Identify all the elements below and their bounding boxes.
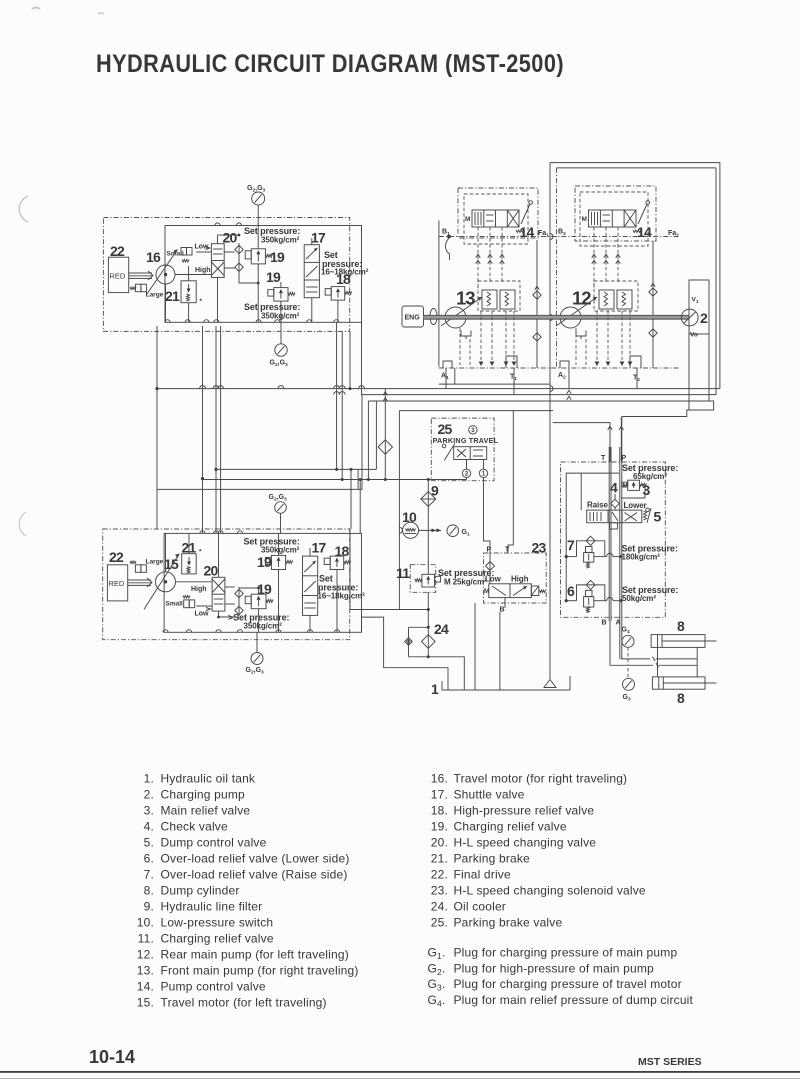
- footer page number: [89, 1047, 135, 1067]
- svg-text:Over-load relief valve (Lower: Over-load relief valve (Lower side): [161, 851, 350, 865]
- label P (dump block): [622, 455, 627, 462]
- label Low (upper block): [195, 244, 210, 251]
- svg-text:Main relief valve: Main relief valve: [161, 803, 251, 817]
- svg-text:65kg/cm²: 65kg/cm²: [633, 472, 667, 481]
- engine: [402, 306, 424, 327]
- P rail double line: [620, 417, 622, 659]
- H-L speed changing solenoid valve 23: [484, 584, 546, 598]
- svg-text:Parking brake: Parking brake: [454, 851, 531, 865]
- check valves on 20 output (lower): [235, 587, 243, 616]
- label 3: [643, 482, 651, 498]
- page title: [96, 50, 564, 78]
- lever of valve 14 (right): [633, 201, 650, 233]
- svg-text:M: M: [623, 483, 628, 490]
- travel motor 13 circuit case: [458, 188, 538, 238]
- wire: horizontal line 3: [349, 331, 714, 416]
- svg-text:Small: Small: [166, 601, 184, 608]
- pump 16 large-displacement pilot: [130, 284, 164, 298]
- svg-text:17: 17: [311, 230, 326, 246]
- svg-text:High: High: [191, 586, 207, 593]
- lever of valve 14 (left): [516, 201, 533, 233]
- svg-text:17.: 17.: [431, 787, 448, 801]
- wires from final drive case: [689, 334, 709, 410]
- svg-text:Oil cooler: Oil cooler: [454, 899, 506, 913]
- svg-text:Front main pump (for right tra: Front main pump (for right traveling): [161, 963, 359, 977]
- svg-text:15.: 15.: [137, 995, 154, 1009]
- svg-text:5.: 5.: [144, 835, 154, 849]
- svg-text:Shuttle valve: Shuttle valve: [454, 787, 525, 801]
- svg-text:G3.: G3.: [428, 977, 446, 993]
- wire: drain rail to tank: [550, 163, 553, 679]
- wire: lower block right to tank: [362, 617, 449, 690]
- svg-text:MST SERIES: MST SERIES: [638, 1056, 702, 1068]
- svg-text:350kg/cm²: 350kg/cm²: [261, 312, 300, 321]
- label 21 (lower): [182, 540, 197, 556]
- wire: left rail 1 between blocks: [155, 326, 158, 529]
- svg-text:Low: Low: [485, 575, 502, 584]
- wire: horizontal line 4: [399, 411, 553, 610]
- svg-text:Low: Low: [195, 611, 210, 618]
- label 19 (lower top): [257, 554, 272, 570]
- svg-text:Set pressure:: Set pressure:: [244, 302, 300, 312]
- label 19 (upper second): [266, 269, 281, 285]
- wire: left rail 3 between blocks: [214, 326, 217, 533]
- plug G2,G3 gauge (above lower block): [269, 494, 288, 533]
- wire: left rail 4 between blocks: [220, 326, 222, 533]
- svg-text:8: 8: [677, 690, 685, 706]
- svg-text:19: 19: [270, 249, 285, 265]
- svg-text:14: 14: [520, 224, 535, 240]
- pump control valve springs 12: [594, 281, 638, 311]
- left loop of dump circuit: [566, 473, 619, 601]
- lever of valve 5: [644, 508, 652, 523]
- label B (23): [500, 607, 505, 614]
- set pressure note (upper block top): [244, 226, 300, 245]
- footer rule: [0, 1071, 800, 1079]
- svg-text:Travel motor (for right travel: Travel motor (for right traveling): [454, 771, 628, 785]
- label B2: [558, 229, 566, 237]
- wire crossing bumps lower block edges: [163, 531, 340, 633]
- svg-text:21.: 21.: [431, 851, 448, 865]
- svg-text:M 25kg/cm²: M 25kg/cm²: [444, 578, 487, 587]
- parts list right column: [431, 771, 646, 929]
- motor 12 work lines: [576, 311, 632, 366]
- svg-text:PARKING TRAVEL: PARKING TRAVEL: [433, 436, 499, 445]
- svg-text:Low-pressure switch: Low-pressure switch: [161, 915, 274, 929]
- svg-text:7: 7: [567, 537, 575, 553]
- charging relief valve 19 (lower top): [265, 555, 292, 569]
- charging relief valve 11: [415, 574, 441, 587]
- svg-text:H-L speed changing valve: H-L speed changing valve: [454, 835, 597, 849]
- shuttle valve 17 (upper): [304, 245, 319, 298]
- svg-text:A: A: [616, 620, 621, 627]
- drain brackets above A2 T2: [560, 356, 641, 368]
- travel motor 12 pilot box: [580, 192, 648, 246]
- svg-text:19.: 19.: [431, 819, 448, 833]
- wire: lower block to cooler: [350, 529, 430, 611]
- svg-text:16.: 16.: [431, 771, 448, 785]
- T1 T2 drops: [446, 368, 637, 395]
- svg-text:3.: 3.: [144, 803, 154, 817]
- label A1: [441, 373, 449, 381]
- label 22 (lower): [109, 549, 124, 565]
- label 23: [532, 540, 547, 556]
- wire from T drop to valve 23: [508, 411, 513, 553]
- label 14 (right): [637, 224, 652, 240]
- svg-text:22.: 22.: [431, 867, 448, 881]
- B1-Fa1-B2-Fa2 pilot dash-dot line: [439, 236, 679, 238]
- label 1: [431, 681, 439, 697]
- svg-text:Raise: Raise: [587, 501, 608, 510]
- final drive RED box: [108, 257, 128, 292]
- svg-text:M: M: [465, 216, 470, 223]
- svg-text:G4.: G4.: [428, 993, 446, 1009]
- label 13: [456, 288, 475, 309]
- svg-text:RED: RED: [109, 579, 125, 588]
- pump 16 small-displacement pilot: [167, 248, 193, 263]
- label 8 (top): [677, 618, 685, 634]
- low-pressure switch 10: [403, 522, 419, 538]
- plug G2,G3 gauge (below upper block): [270, 322, 289, 368]
- label 16: [146, 249, 161, 265]
- check valve in 23: [486, 553, 495, 584]
- svg-text:18: 18: [335, 543, 350, 559]
- svg-text:9.: 9.: [144, 899, 154, 913]
- set pressure note (17 lower): [318, 574, 366, 601]
- svg-text:Dump cylinder: Dump cylinder: [161, 883, 240, 897]
- svg-text:Pump control valve: Pump control valve: [161, 979, 266, 993]
- set pressure note (17 upper): [321, 250, 369, 277]
- wire: horizontal line 2: [334, 168, 716, 395]
- svg-text:8: 8: [677, 618, 685, 634]
- scan artifacts: [19, 8, 104, 537]
- wire valve 6 line: [565, 598, 623, 603]
- wire: bottom-left bundle line a: [216, 322, 376, 489]
- svg-text:20.: 20.: [431, 835, 448, 849]
- svg-text:4: 4: [610, 480, 618, 496]
- svg-text:Large: Large: [146, 292, 164, 299]
- svg-text:13.: 13.: [137, 963, 154, 977]
- wire: horizontal into parking/filter: [367, 478, 370, 481]
- cylinder link wires: [658, 647, 698, 677]
- svg-text:Vo: Vo: [690, 332, 698, 339]
- svg-text:13: 13: [456, 288, 475, 309]
- svg-text:P: P: [487, 547, 492, 554]
- wire from port 1 to valve 23: [484, 478, 491, 554]
- travel motor 12 circuit case: [575, 186, 656, 241]
- wires inside lower block: [166, 533, 338, 632]
- circled 2: [462, 469, 470, 477]
- label 19 (lower mid): [257, 581, 272, 597]
- svg-text:11: 11: [396, 565, 410, 581]
- pump control valve springs 13: [478, 281, 520, 311]
- svg-text:Plug for high-pressure of main: Plug for high-pressure of main pump: [454, 961, 655, 975]
- plug G1 gauge: [447, 525, 470, 538]
- label 15: [164, 556, 179, 572]
- final drive 2 case: [689, 280, 709, 334]
- H-L speed changing valve 20 (lower): [206, 577, 225, 611]
- svg-text:24: 24: [434, 621, 449, 637]
- svg-text:Over-load relief valve (Raise: Over-load relief valve (Raise side): [161, 867, 348, 881]
- charging relief valve 19 (upper second): [268, 288, 295, 302]
- drive shaft: [424, 315, 690, 319]
- svg-text:Plug for main relief pressure: Plug for main relief pressure of dump ci…: [454, 993, 694, 1007]
- svg-text:Plug for charging pressure of: Plug for charging pressure of main pump: [454, 946, 678, 960]
- valve 5 port block: [610, 523, 618, 529]
- label 17 (lower): [312, 540, 327, 556]
- svg-text:19: 19: [266, 269, 281, 285]
- svg-text:Hydraulic oil tank: Hydraulic oil tank: [161, 771, 256, 785]
- set pressure note (lower block bottom): [228, 613, 289, 631]
- wire: top line outer: [550, 163, 720, 389]
- svg-text:18: 18: [336, 271, 351, 287]
- svg-text:High: High: [511, 575, 529, 584]
- H-L speed changing valve 20 (upper): [206, 244, 225, 278]
- bottom dash-dot of motor box: [439, 367, 679, 369]
- svg-text:22: 22: [109, 549, 124, 565]
- label B1: [442, 229, 451, 239]
- label T1: [510, 374, 517, 382]
- wire: cooler to tank: [428, 657, 464, 690]
- wires inside upper block: [166, 226, 338, 323]
- wire: left edge of motor box: [438, 220, 440, 366]
- wire: bottom-left bundle line b: [203, 331, 467, 481]
- hydraulic oil tank 1: [442, 676, 570, 690]
- parking brake 21 (lower): [182, 549, 202, 574]
- plug G2,G3 gauge (top of upper block): [247, 185, 266, 226]
- svg-text:High-pressure relief valve: High-pressure relief valve: [454, 803, 595, 817]
- svg-text:Final drive: Final drive: [454, 867, 511, 881]
- label Vo: [690, 332, 698, 339]
- check valves on 20 output: [235, 243, 243, 277]
- label 18 (lower): [335, 543, 350, 559]
- label Low (lower block): [195, 611, 210, 618]
- wire: T/P drop to dump control: [553, 417, 624, 463]
- svg-text:19: 19: [257, 554, 272, 570]
- plug G4 gauge: [622, 627, 635, 666]
- svg-text:16~18kg/cm²: 16~18kg/cm²: [318, 592, 366, 601]
- relief loop to valve 3: [621, 485, 645, 498]
- shuttle valve 17 (lower): [303, 556, 318, 615]
- svg-text:8.: 8.: [144, 883, 154, 897]
- svg-text:Hydraulic line filter: Hydraulic line filter: [161, 899, 263, 913]
- label B (dump): [602, 620, 607, 627]
- drain brackets above A1 T1: [443, 356, 517, 368]
- charging relief valve 11 case: [410, 565, 436, 593]
- dump control valve 5: [587, 510, 642, 523]
- pump 16: [147, 250, 178, 295]
- final drive 22 outer case (lower): [103, 529, 350, 640]
- svg-text:Plug for charging pressure of: Plug for charging pressure of travel mot…: [454, 977, 682, 991]
- svg-text:6: 6: [567, 583, 575, 599]
- svg-text:12.: 12.: [137, 947, 154, 961]
- label 17: [311, 230, 326, 246]
- pump 15 large-displacement pilot: [130, 559, 164, 573]
- svg-text:10.: 10.: [137, 915, 154, 929]
- label 18: [336, 271, 351, 287]
- label 21: [165, 288, 180, 304]
- parking brake 21 (upper): [181, 281, 203, 305]
- svg-text:RED: RED: [110, 272, 126, 281]
- svg-text:7.: 7.: [144, 867, 154, 881]
- valve 23 drain: [504, 598, 506, 608]
- under-box horizontal: [439, 368, 550, 384]
- svg-text:Charging pump: Charging pump: [161, 787, 246, 801]
- svg-text:3: 3: [643, 482, 651, 498]
- pump control valve 14 (left): [465, 210, 519, 227]
- svg-text:180kg/cm²: 180kg/cm²: [622, 553, 661, 562]
- svg-text:11.: 11.: [138, 931, 154, 945]
- wire: 23 drains to tank: [475, 603, 500, 690]
- wire: staircase vertical to lower block a: [350, 468, 353, 529]
- pump 15 small-displacement pilot: [166, 596, 195, 608]
- label 5: [654, 509, 662, 525]
- svg-text:ENG: ENG: [405, 315, 421, 322]
- over-load relief valve 6: [584, 590, 594, 612]
- svg-text:Dump control valve: Dump control valve: [161, 835, 267, 849]
- main relief valve 3: [622, 480, 647, 490]
- label T2: [633, 375, 640, 383]
- wire: line to parking circuit: [368, 389, 392, 480]
- plug G2,G3 gauge (below lower block): [246, 632, 265, 675]
- B1 corner wire: [446, 238, 450, 260]
- parts list left column: [137, 771, 359, 1009]
- over-load relief valve 7 loop: [577, 536, 605, 556]
- svg-text:350kg/cm²: 350kg/cm²: [261, 236, 300, 245]
- svg-text:HYDRAULIC CIRCUIT DIAGRAM (MST: HYDRAULIC CIRCUIT DIAGRAM (MST-2500): [96, 50, 564, 78]
- T rail double line: [609, 447, 611, 621]
- label 9: [431, 483, 439, 499]
- label PARKING TRAVEL: [433, 436, 499, 445]
- wire: staircase vertical to lower block b: [359, 478, 362, 533]
- label 8 (bottom): [677, 690, 685, 706]
- svg-text:50kg/cm²: 50kg/cm²: [622, 594, 656, 603]
- svg-text:T: T: [601, 455, 606, 462]
- H-L solenoid valve 23 case: [484, 553, 547, 603]
- parking brake valve 25 case: [431, 418, 494, 481]
- svg-text:Travel motor (for left traveli: Travel motor (for left traveling): [161, 995, 327, 1009]
- label High (23): [511, 575, 529, 584]
- svg-text:20: 20: [223, 230, 238, 246]
- dump cylinder 8 (bottom): [652, 677, 716, 689]
- parking valve ports: [467, 460, 484, 470]
- pilot lines valve 14 to control (left): [476, 227, 505, 290]
- svg-text:2: 2: [700, 310, 708, 326]
- charging relief valve 19 (lower mid): [245, 594, 273, 609]
- pilot lines valve 14 to control (right): [592, 227, 621, 290]
- wire from port 2 down: [466, 478, 468, 480]
- front main pump 12: [556, 297, 597, 328]
- svg-text:M: M: [484, 588, 489, 595]
- svg-text:18.: 18.: [431, 803, 448, 817]
- svg-text:Set pressure:: Set pressure:: [244, 226, 300, 236]
- hydraulic line filter 9: [421, 480, 436, 575]
- label 25: [438, 421, 453, 437]
- svg-text:16: 16: [146, 249, 161, 265]
- wire: bottom-left bundle line c: [157, 395, 362, 489]
- check valve 4: [611, 494, 620, 510]
- svg-text:1: 1: [431, 681, 439, 697]
- switch to gauge arrow: [419, 528, 441, 532]
- svg-text:M: M: [582, 216, 587, 223]
- svg-text:20: 20: [204, 563, 219, 579]
- svg-text:25: 25: [438, 421, 453, 437]
- label 4: [610, 480, 618, 496]
- check diamonds right of 12: [649, 241, 657, 368]
- dump control valve 5 case: [561, 462, 666, 617]
- svg-text:6.: 6.: [144, 851, 154, 865]
- label 24: [434, 621, 449, 637]
- drain bracket under 13: [461, 331, 471, 340]
- wire: top line inner: [557, 167, 717, 169]
- svg-text:25.: 25.: [431, 915, 448, 929]
- circled 3: [469, 426, 477, 434]
- svg-text:24.: 24.: [431, 899, 448, 913]
- set pressure note (11): [438, 568, 494, 587]
- svg-text:21: 21: [165, 288, 180, 304]
- label Lower: [624, 501, 647, 510]
- svg-text:17: 17: [312, 540, 327, 556]
- final drive 22 outer case (upper): [103, 218, 349, 332]
- label Low (23): [485, 575, 502, 584]
- tank vent triangle: [544, 680, 556, 688]
- label 20: [223, 230, 238, 246]
- svg-text:Parking brake valve: Parking brake valve: [454, 915, 563, 929]
- label V1: [692, 297, 699, 305]
- circled 1: [479, 469, 487, 477]
- label P (23): [487, 547, 492, 554]
- wire B to bottom cylinder: [610, 621, 697, 668]
- motor 13 work lines: [460, 311, 516, 366]
- over-load relief valve 7: [584, 547, 594, 569]
- pump 15: [144, 554, 179, 610]
- set pressure note (upper block bottom): [244, 302, 300, 321]
- pump 16 circuit box: [165, 226, 362, 323]
- label High (upper block): [195, 267, 211, 274]
- svg-text:Lower: Lower: [624, 501, 647, 510]
- svg-text:9: 9: [431, 483, 439, 499]
- plug notes G1-G4: [428, 946, 694, 1009]
- svg-text:T: T: [505, 547, 510, 554]
- label 14 (left): [520, 224, 535, 240]
- svg-text:2.: 2.: [144, 787, 154, 801]
- svg-text:1.: 1.: [144, 771, 154, 785]
- high-pressure relief valve 18 (upper): [325, 287, 351, 301]
- label Fa2: [668, 230, 679, 238]
- dump cylinder 8 (top): [651, 635, 716, 648]
- over-load relief valve 6 loop: [577, 580, 605, 600]
- set pressure note (lower block top): [244, 537, 300, 555]
- label 10: [402, 509, 417, 525]
- wire: long horizontal main line: [157, 386, 720, 389]
- svg-text:4.: 4.: [144, 819, 154, 833]
- label 12: [572, 288, 591, 309]
- final drive RED box (lower): [107, 565, 127, 601]
- oil cooler 24: [405, 592, 435, 658]
- label Fa1: [538, 230, 549, 238]
- svg-text:Charging relief valve: Charging relief valve: [454, 819, 567, 833]
- wire: left rail 2 between blocks: [201, 326, 204, 533]
- drain bracket under 12: [576, 331, 586, 340]
- svg-text:G2.: G2.: [428, 961, 446, 977]
- svg-text:Rear main pump (for left trave: Rear main pump (for left traveling): [161, 947, 349, 961]
- svg-text:Check valve: Check valve: [161, 819, 228, 833]
- high-pressure relief valve 18 (lower): [324, 556, 350, 569]
- label A2: [558, 372, 566, 380]
- label 11: [396, 565, 410, 581]
- svg-text:22: 22: [110, 243, 125, 259]
- svg-text:350kg/cm²: 350kg/cm²: [244, 622, 283, 631]
